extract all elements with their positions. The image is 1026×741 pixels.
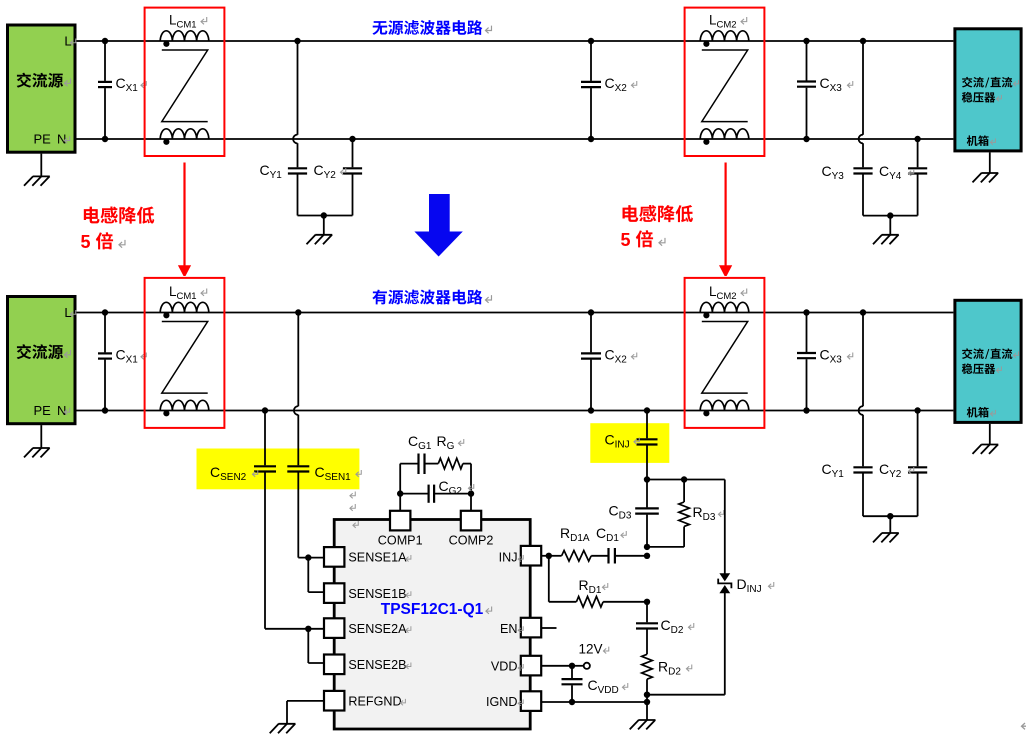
svg-text:TPSF12C1-Q1: TPSF12C1-Q1 bbox=[381, 601, 484, 618]
svg-text:SENSE2A: SENSE2A bbox=[348, 622, 407, 636]
svg-text:VDD: VDD bbox=[491, 660, 518, 674]
svg-text:PE: PE bbox=[34, 132, 52, 147]
svg-text:N: N bbox=[57, 132, 66, 147]
svg-text:12V: 12V bbox=[579, 642, 603, 657]
svg-text:5: 5 bbox=[81, 232, 91, 252]
svg-text:REFGND: REFGND bbox=[348, 695, 401, 709]
svg-text:5: 5 bbox=[621, 230, 631, 250]
svg-text:SENSE1B: SENSE1B bbox=[348, 587, 406, 601]
svg-text:N: N bbox=[57, 403, 66, 418]
svg-text:PE: PE bbox=[34, 403, 52, 418]
svg-text:SENSE2B: SENSE2B bbox=[348, 658, 406, 672]
svg-text:L: L bbox=[64, 34, 71, 49]
svg-text:IGND: IGND bbox=[486, 695, 517, 709]
svg-text:L: L bbox=[64, 305, 71, 320]
svg-text:COMP1: COMP1 bbox=[378, 534, 423, 548]
svg-text:COMP2: COMP2 bbox=[449, 534, 494, 548]
svg-text:SENSE1A: SENSE1A bbox=[348, 551, 407, 565]
svg-text:INJ: INJ bbox=[499, 551, 518, 565]
svg-text:EN: EN bbox=[500, 622, 518, 636]
